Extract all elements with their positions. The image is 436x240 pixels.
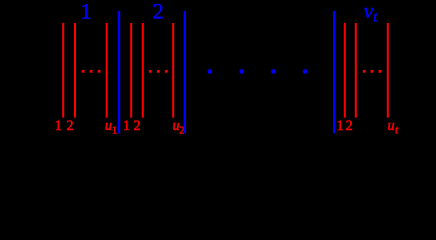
- svg-text:1: 1: [55, 118, 62, 134]
- group t red line ut: [387, 23, 389, 118]
- svg-text:v: v: [364, 0, 374, 23]
- group 1 red line 2: [74, 23, 76, 118]
- group 2 bottom label "u_2": [173, 118, 185, 137]
- svg-text:2: 2: [152, 0, 163, 24]
- group t ellipsis dots: [363, 70, 381, 73]
- group 2 red line u2: [172, 23, 174, 118]
- separator blue line 3: [333, 11, 335, 133]
- svg-text:2: 2: [66, 118, 73, 134]
- group 1 red line 1: [62, 23, 64, 118]
- group t red line 2: [355, 23, 357, 118]
- svg-text:1: 1: [112, 126, 117, 137]
- group 2 ellipsis dots: [149, 70, 168, 73]
- group 1 red line u1: [106, 23, 108, 118]
- separator blue line 1: [118, 11, 120, 133]
- group 2 red line 1: [130, 23, 132, 118]
- svg-text:2: 2: [346, 118, 353, 134]
- group 2 red line 2: [142, 23, 144, 118]
- group t bottom label "u_t": [388, 118, 399, 137]
- group 1 bottom label "u_1": [105, 118, 117, 137]
- group t top label "v_t": [364, 0, 379, 26]
- svg-text:1: 1: [337, 118, 344, 134]
- middle blue dots: [208, 69, 308, 74]
- group 1 ellipsis dots: [82, 70, 101, 73]
- svg-text:u: u: [105, 118, 112, 134]
- group t red line 1: [344, 23, 346, 118]
- separator blue line 2: [184, 11, 186, 133]
- svg-text:2: 2: [134, 118, 141, 134]
- svg-text:1: 1: [123, 118, 130, 134]
- svg-text:u: u: [388, 118, 395, 134]
- svg-text:1: 1: [80, 0, 91, 24]
